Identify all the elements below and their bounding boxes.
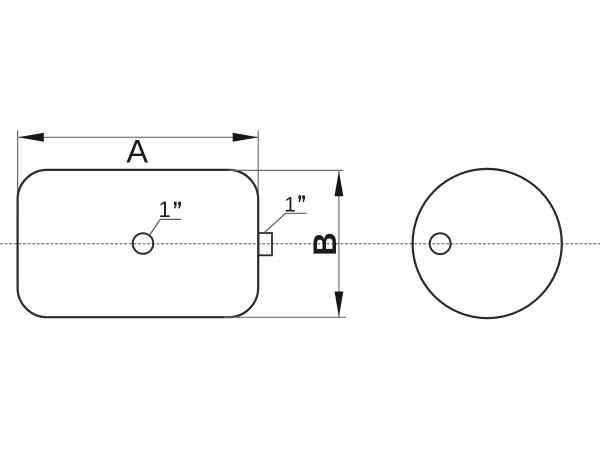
leader line hole 1" [150,219,181,234]
extension line B top [229,169,344,171]
hole circle side view [430,233,451,254]
dimension line A [18,136,258,138]
tank front view (rounded rectangle) [18,170,259,317]
tank side view (circle) [413,169,562,318]
arrowhead B top [335,171,344,196]
svg-text:A: A [126,133,148,169]
centerline [0,243,600,245]
port fitting on right side [259,233,273,255]
arrowhead A left [18,133,44,142]
leader line port 1" [264,213,306,233]
hole circle front view [133,233,154,254]
extension line A left [17,130,19,206]
extension line B bottom [224,316,346,318]
extension line A right [257,130,259,206]
arrowhead A right [233,133,259,142]
arrowhead B bottom [335,292,344,317]
svg-text:1: 1 [159,197,171,222]
svg-text:1: 1 [284,193,296,216]
svg-text:B: B [307,232,343,255]
dimension line B [338,171,340,317]
